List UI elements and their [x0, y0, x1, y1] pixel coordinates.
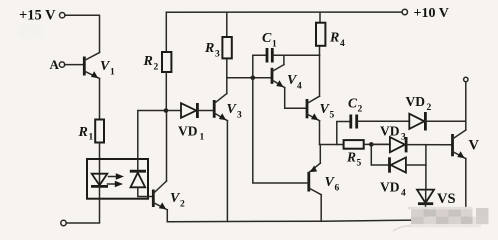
- wire VD4 anode up to V base net, down to VS: [425, 145, 427, 190]
- svg-text:5: 5: [357, 159, 362, 169]
- svg-text:VD: VD: [380, 124, 400, 139]
- output terminal: [464, 77, 468, 81]
- svg-text:R: R: [143, 54, 153, 69]
- svg-text:2: 2: [427, 103, 432, 113]
- resistor R1: [78, 120, 105, 143]
- resistor R5: [320, 140, 391, 168]
- node junction dot (R5/VD3/VD4): [369, 142, 374, 147]
- diode VD1: [166, 103, 213, 143]
- svg-text:C: C: [348, 96, 358, 111]
- wire R1 to LED: [99, 143, 101, 187]
- svg-text:VS: VS: [437, 191, 456, 207]
- zener VS: [417, 190, 456, 221]
- optocoupler box: [87, 159, 148, 199]
- wire V6 collector to ground bus: [320, 195, 322, 222]
- svg-text:R: R: [78, 125, 88, 140]
- transistor V1: [84, 53, 115, 79]
- svg-text:VD: VD: [178, 124, 198, 139]
- wire V2 collector to node: [166, 111, 168, 182]
- svg-text:A: A: [50, 57, 60, 72]
- wire output to V collector: [465, 82, 467, 130]
- svg-text:R: R: [204, 41, 214, 56]
- transistor V4: [272, 65, 302, 92]
- node junction dot (C1/V4 base/V6 base): [251, 76, 256, 81]
- svg-text:3: 3: [401, 133, 406, 143]
- wire A to V1 base: [65, 64, 84, 66]
- svg-text:2: 2: [358, 105, 363, 115]
- optocoupler LED: [91, 174, 108, 187]
- capacitor C2: [337, 96, 410, 145]
- svg-text:3: 3: [237, 111, 242, 121]
- svg-text:1: 1: [110, 68, 115, 78]
- wire LED cathode to bottom-left terminal: [66, 186, 99, 223]
- transistor V6 (PNP): [309, 145, 340, 195]
- light arrows: [108, 173, 125, 187]
- svg-text:5: 5: [330, 111, 335, 121]
- capacitor C1: [253, 31, 320, 78]
- +15V supply terminal: [19, 8, 65, 24]
- diode VD2: [406, 94, 466, 131]
- watermark mosaic: [393, 207, 489, 231]
- svg-text:2: 2: [180, 200, 185, 210]
- diode VD4: [371, 144, 426, 198]
- wire V3 emitter to ground bus: [226, 121, 228, 222]
- svg-text:R: R: [346, 150, 356, 165]
- +10V top bus: [166, 11, 402, 13]
- +10V supply terminal: [402, 6, 449, 21]
- svg-text:1: 1: [200, 133, 205, 143]
- wire V5 emitter down to R5 line: [319, 121, 321, 145]
- svg-text:+15 V: +15 V: [19, 8, 56, 24]
- wire +15V to V1 collector: [65, 15, 99, 52]
- svg-text:4: 4: [340, 39, 345, 49]
- svg-text:4: 4: [401, 189, 406, 199]
- ground bus (bottom): [167, 220, 466, 222]
- svg-text:C: C: [262, 31, 272, 46]
- transistor V5: [307, 96, 335, 121]
- svg-text:R: R: [329, 31, 339, 46]
- wire V3 collector tap to V4 base: [227, 77, 271, 79]
- svg-text:4: 4: [297, 82, 302, 92]
- resistor R4: [316, 12, 345, 49]
- svg-text:1: 1: [89, 133, 94, 143]
- wire V6 base to node net: [253, 78, 309, 183]
- wire V4 emitter to V5 base: [285, 88, 307, 109]
- transistor V3: [214, 94, 242, 121]
- wire V5 collector to R4: [319, 46, 321, 96]
- resistor R3: [204, 12, 232, 59]
- transistor V2: [153, 181, 185, 210]
- wire V2 emitter to ground bus: [166, 210, 168, 222]
- resistor R2: [143, 12, 172, 110]
- svg-text:1: 1: [272, 40, 277, 50]
- node junction dot (R2/VD1/V2): [164, 108, 169, 113]
- svg-text:6: 6: [335, 184, 340, 194]
- svg-text:V: V: [469, 138, 480, 154]
- diode VD3: [371, 124, 451, 153]
- bottom-left input terminal: [61, 220, 66, 225]
- svg-text:VD: VD: [406, 94, 426, 109]
- node A input terminal: [50, 57, 65, 72]
- transistor V (output): [453, 130, 480, 159]
- optocoupler photodiode: [130, 171, 146, 187]
- svg-text:3: 3: [215, 50, 220, 60]
- wire photodiode cathode up to node: [138, 111, 165, 172]
- svg-text:2: 2: [154, 63, 159, 73]
- wire V emitter to ground bus: [465, 159, 467, 220]
- svg-text:VD: VD: [380, 180, 400, 195]
- wire V1 emitter to R1: [99, 79, 101, 120]
- wire V3 collector to R3: [226, 58, 228, 93]
- svg-text:+10 V: +10 V: [414, 6, 449, 21]
- wire photodiode anode to V2 base: [138, 187, 152, 196]
- wire V4 collector to C1 net: [283, 55, 285, 64]
